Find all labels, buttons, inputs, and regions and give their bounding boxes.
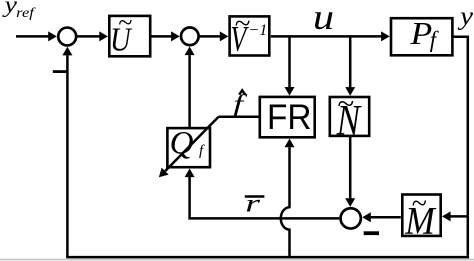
block Qf (adjustable filter): [167, 126, 210, 168]
wire: branch from u down into FR top: [285, 36, 295, 95]
wire: U to summer S2: [151, 31, 180, 41]
wire: from bottom line up into FR bottom, hop over r-bar: [281, 139, 295, 258]
svg-text:~: ~: [337, 85, 354, 120]
wire: S1 to block U: [77, 31, 108, 41]
block Pf (plant): [391, 16, 452, 55]
block V-tilde inverse: [230, 8, 270, 59]
wire: bottom feedback line: [66, 256, 469, 259]
minus sign at S3: [364, 231, 379, 235]
svg-text:−1: −1: [248, 22, 267, 39]
label f-hat: [233, 90, 248, 117]
svg-text:~: ~: [411, 189, 426, 220]
summing junction S3: [341, 208, 361, 228]
summing junction S1: [58, 28, 76, 46]
block N-tilde: [330, 85, 369, 144]
summing junction S2: [181, 28, 199, 46]
wire: reference input into summer S1: [16, 31, 57, 41]
wire: right edge into M: [442, 211, 468, 221]
wire: M into S3: [362, 212, 401, 222]
block U (U-tilde controller): [109, 8, 150, 58]
wire: N down into summer S3: [345, 136, 355, 207]
svg-text:~: ~: [118, 8, 132, 37]
svg-text:ref: ref: [16, 6, 36, 21]
svg-text:FR: FR: [267, 98, 312, 137]
svg-text:Q: Q: [170, 126, 194, 162]
minus sign at S1: [53, 70, 67, 73]
block FR (fault reconstruction): [260, 97, 315, 137]
wire: left feedback up into S1, negative: [62, 47, 72, 257]
wire: r-bar from S3 left then up into Qf: [185, 169, 340, 219]
adjustment arrow: f-hat wire from FR left, diagonal through Qf: [159, 117, 259, 178]
svg-text:y: y: [457, 0, 473, 30]
wire: branch from u down into N top: [345, 36, 355, 95]
label r-bar: [245, 191, 265, 218]
svg-text:r: r: [245, 191, 260, 218]
wire: S2 to block V^-1: [200, 31, 229, 41]
wire: y from Pf right, down right edge: [452, 37, 467, 256]
svg-text:u: u: [313, 0, 334, 37]
label y_ref: [2, 0, 36, 21]
wire: V^-1 to plant Pf, node u: [271, 31, 390, 41]
block M-tilde: [402, 189, 440, 243]
wire: Qf top up into S2: [185, 47, 195, 129]
